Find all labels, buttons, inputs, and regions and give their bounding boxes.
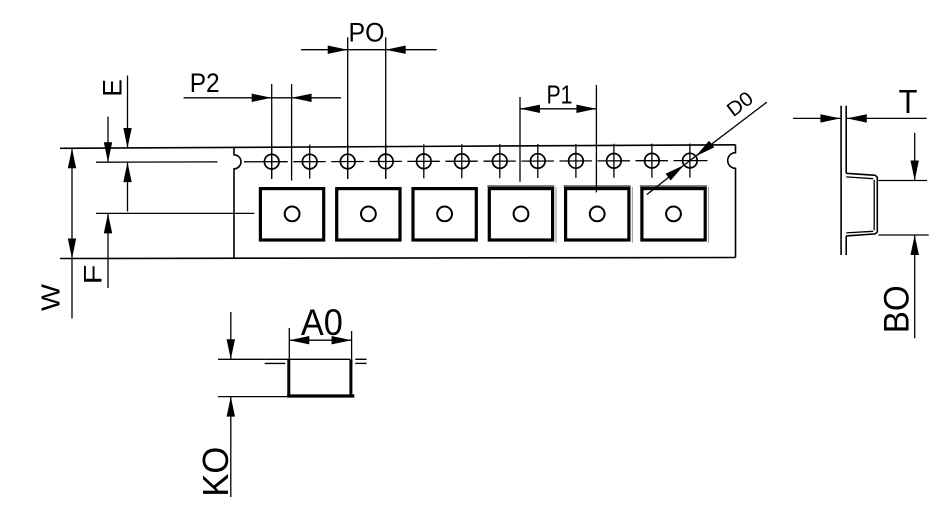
P1 extension line left — [519, 97, 521, 182]
component pocket 5 — [564, 186, 633, 243]
svg-text:PO: PO — [349, 18, 385, 48]
F arrow up — [104, 213, 112, 233]
component pocket 6 — [640, 186, 709, 243]
A0 extension line left — [288, 328, 290, 361]
PO extension line right — [385, 37, 387, 179]
side view strip left line — [840, 106, 842, 255]
sprocket hole 7 — [493, 144, 508, 178]
section tape underside left — [265, 362, 286, 364]
D0 leader lower — [647, 165, 684, 195]
T arrow right — [820, 114, 840, 122]
KO dimension lower line — [230, 397, 232, 497]
BO extension line top — [879, 180, 928, 182]
svg-text:F: F — [80, 265, 108, 285]
sprocket hole 4 — [379, 144, 394, 178]
tape right end with notch — [728, 145, 736, 258]
D0 arrow upper — [696, 141, 715, 156]
BO extension line bottom — [879, 234, 929, 236]
A0 dimension line — [289, 339, 351, 341]
pocket 4 center hole — [514, 207, 529, 222]
tape top edge — [60, 145, 736, 149]
P1 arrow right — [576, 105, 596, 113]
KO arrow down — [227, 339, 235, 359]
sprocket hole 1 — [264, 145, 279, 179]
component pocket 1 — [260, 189, 323, 240]
section tape surface top right — [355, 358, 366, 360]
E arrow down — [123, 128, 131, 148]
svg-text:E: E — [98, 79, 128, 97]
component pocket 2 — [337, 189, 400, 240]
A0 arrow left — [289, 336, 309, 344]
PO extension line left — [347, 37, 349, 179]
P1 arrow left — [520, 105, 540, 113]
tape left end with notch — [234, 147, 241, 258]
section pocket bottom — [287, 394, 354, 397]
P2 arrow right — [252, 94, 272, 102]
side view strip right line upper — [845, 106, 847, 174]
dimension E lower line — [127, 162, 129, 211]
P2 dimension line — [184, 97, 341, 99]
BO arrow up — [911, 235, 919, 255]
svg-text:BO: BO — [877, 285, 916, 333]
dimension F upper line — [107, 117, 109, 163]
sprocket hole 8 — [531, 144, 546, 178]
dimension E upper line — [127, 76, 129, 149]
section tape underside right — [355, 362, 366, 364]
svg-text:P1: P1 — [547, 80, 573, 110]
F arrow down — [104, 142, 112, 162]
tape bottom edge — [60, 258, 736, 259]
side view pocket bump inner — [846, 177, 874, 233]
component pocket 3 — [413, 189, 476, 240]
W arrow up — [68, 148, 76, 168]
D0 leader through hole — [684, 156, 696, 165]
pocket 5 center hole — [590, 207, 605, 222]
KO arrow up — [227, 397, 235, 417]
sprocket hole 6 — [455, 144, 470, 178]
W arrow down — [68, 239, 76, 259]
P1 dimension line — [520, 108, 596, 110]
P2 extension line left — [271, 84, 273, 179]
sprocket hole 5 — [417, 144, 432, 178]
svg-text:T: T — [899, 83, 918, 120]
svg-text:P2: P2 — [190, 68, 220, 98]
section pocket left wall — [287, 359, 290, 396]
pocket 1 center hole — [285, 207, 300, 222]
svg-text:KO: KO — [195, 447, 236, 497]
KO extension line bottom — [218, 396, 287, 398]
sprocket hole 9 — [569, 144, 584, 178]
pocket 2 center hole — [361, 207, 376, 222]
sprocket hole centerline — [96, 161, 708, 163]
svg-text:A0: A0 — [301, 302, 343, 343]
PO dimension line — [301, 49, 437, 51]
D0 arrow lower — [666, 165, 685, 181]
P2 extension line right — [291, 84, 293, 181]
component pocket 4 — [487, 186, 556, 243]
pocket 3 center hole — [437, 207, 452, 222]
sprocket hole 11 — [645, 144, 660, 178]
section tape surface top line — [265, 358, 350, 360]
pocket centerline extension — [96, 212, 254, 214]
BO dimension lower line — [914, 235, 916, 338]
KO dimension upper line — [230, 312, 232, 359]
sprocket hole 2 — [302, 145, 317, 179]
T dimension line right — [847, 117, 927, 119]
pocket 6 center hole — [666, 207, 681, 222]
dimension F lower line — [107, 213, 109, 288]
side view strip right line lower — [845, 236, 847, 255]
PO arrow right — [328, 46, 348, 54]
dimension W line — [71, 148, 73, 318]
E arrow up — [123, 162, 131, 182]
side view pocket bump outer — [846, 173, 877, 236]
A0 extension line right — [351, 331, 353, 365]
KO extension line top — [218, 358, 265, 360]
svg-text:W: W — [36, 284, 66, 311]
sprocket hole 3 — [340, 145, 355, 179]
T dimension line left — [793, 117, 840, 119]
sprocket hole 12 — [683, 144, 698, 178]
D0 leader upper — [696, 102, 767, 156]
PO arrow left — [386, 46, 406, 54]
T arrow left — [847, 114, 867, 122]
P1 extension line right — [595, 85, 597, 192]
sprocket hole 10 — [607, 144, 622, 178]
BO dimension upper line — [914, 133, 916, 181]
BO arrow down — [911, 161, 919, 181]
section pocket right wall — [349, 359, 352, 396]
A0 arrow right — [332, 336, 352, 344]
P2 arrow left — [292, 94, 312, 102]
